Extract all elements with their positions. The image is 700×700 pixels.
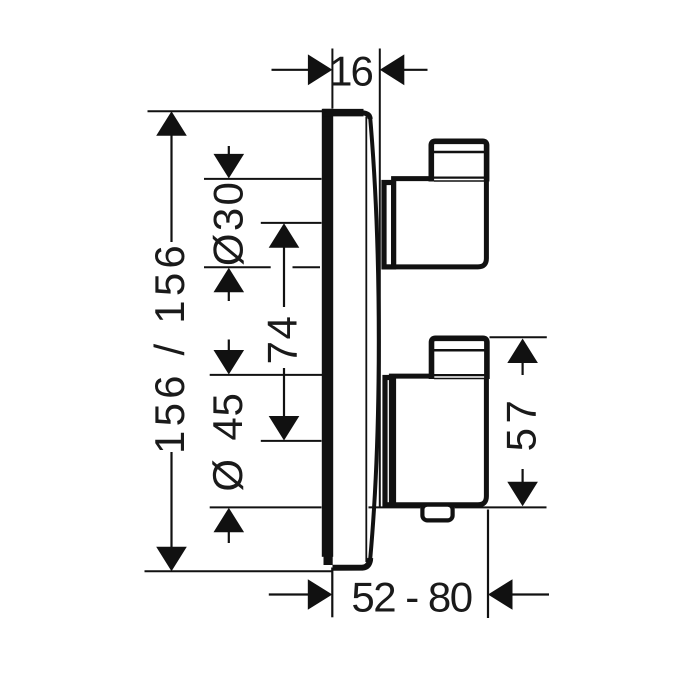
dim 156: bottom arrow: [156, 547, 187, 572]
plate right face curve: [370, 118, 379, 559]
dim 52-80: left arrow: [308, 579, 333, 610]
dim 74: upper tail: [283, 248, 285, 308]
lower knob body: [391, 376, 486, 505]
dim D45: top extension line: [210, 374, 322, 376]
dim 16: left extension line: [331, 49, 333, 109]
plate top-right corner: [362, 113, 370, 119]
extension line 16-right (long, x=379.8): [379, 49, 381, 508]
svg-text:52 - 80: 52 - 80: [351, 574, 471, 621]
dim D30: bottom extension line seg2: [293, 266, 321, 268]
dim 52-80: left tail: [269, 593, 309, 595]
upper knob tab bottom thin line: [434, 180, 484, 182]
dim D30: top arrow: [214, 154, 245, 179]
plate top edge: [323, 109, 364, 117]
dim 16: left arrow: [308, 54, 333, 85]
lower knob tab: [432, 338, 487, 379]
dim D45: bottom arrow: [214, 508, 245, 533]
dim 57: upper tail: [521, 362, 523, 375]
dim 57: bottom arrow: [507, 482, 538, 507]
plate bottom edge: [333, 558, 371, 568]
svg-text:16: 16: [329, 48, 372, 95]
dim D45: bottom arrow tail: [228, 531, 230, 543]
dim 74: lower tail: [283, 368, 285, 417]
upper knob tab: [431, 141, 486, 181]
dim 52-80: right extension line: [487, 510, 489, 619]
dim D30: bottom arrow tail: [228, 291, 230, 301]
lower knob tab bottom thin line: [434, 378, 485, 380]
dim 156: top arrow: [156, 111, 187, 136]
dim 52-80: right tail: [512, 593, 550, 595]
dim 156: dimension line upper segment: [170, 134, 172, 242]
svg-text:74: 74: [259, 315, 306, 365]
dim 156: bottom extension line: [145, 570, 334, 572]
upper knob top edge under tab: [434, 177, 484, 179]
svg-text:Ø30: Ø30: [205, 180, 252, 266]
dim 57: top extension line: [490, 336, 547, 338]
dim 156: dimension line lower segment: [170, 452, 172, 548]
plate front face inner line: [365, 117, 367, 563]
dim 57: top arrow: [507, 339, 538, 364]
dim 156: top extension line: [148, 110, 328, 112]
upper knob tab inner line: [434, 151, 485, 154]
dim D30: top extension line: [204, 178, 322, 180]
dim 74: bottom arrow: [269, 416, 300, 441]
plate back bar: [322, 109, 333, 557]
dim D30: bottom extension line seg1: [204, 266, 271, 268]
dim D45: bottom extension line seg1: [210, 506, 322, 508]
dim D45: top arrow: [214, 350, 245, 375]
dim D45: top arrow tail: [228, 340, 230, 355]
svg-text:Ø 45: Ø 45: [204, 392, 251, 491]
dim 52-80: left extension line: [331, 568, 333, 618]
dim 74: bottom centre line: [261, 440, 322, 442]
dim D45: bottom extension line seg3 (to 57 dim): [455, 506, 547, 508]
lower knob ring: [385, 378, 394, 505]
dim 52-80: right arrow: [488, 579, 513, 610]
dim D30: top arrow tail: [228, 146, 230, 158]
dim 74: top arrow: [269, 223, 300, 248]
dim 16: right arrow: [380, 54, 405, 85]
lower knob tab inner line: [434, 349, 485, 352]
dim 16: right tail: [403, 69, 427, 71]
upper knob ring: [384, 183, 394, 267]
dim D45: bottom extension line seg2: [369, 506, 421, 508]
dim 74: top centre line: [261, 222, 322, 224]
upper knob body: [394, 179, 487, 267]
svg-text:57: 57: [498, 396, 545, 452]
dim 57: lower tail: [521, 469, 523, 485]
lower knob top edge under tab: [434, 374, 485, 376]
svg-text:156 / 156: 156 / 156: [146, 241, 193, 454]
dim 16: left tail: [272, 69, 310, 71]
dim D30: bottom arrow: [214, 268, 245, 293]
lower knob bottom button: [422, 505, 452, 521]
